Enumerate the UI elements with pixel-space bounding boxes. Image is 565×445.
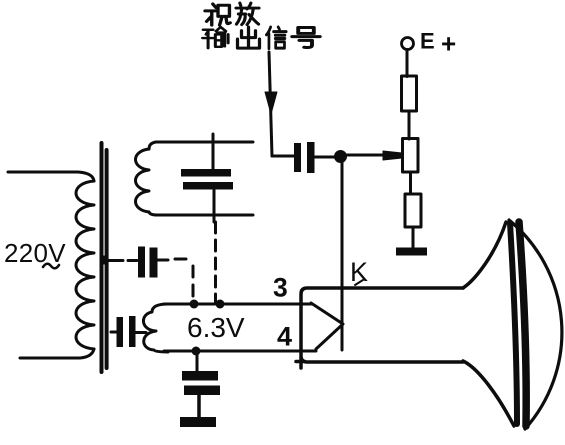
dashed wire from C1 to heater lead <box>214 222 217 303</box>
label 220V~ <box>4 238 66 268</box>
wire C4 to node <box>314 156 336 159</box>
heater filament inside neck <box>311 303 343 349</box>
wire C3 to ground <box>197 395 201 418</box>
CRT bell top flare <box>463 222 506 288</box>
wire R2 to R3 <box>409 172 412 194</box>
wire R1 to R2 <box>408 111 411 139</box>
capacitor C1 plates <box>181 169 233 190</box>
secondary winding L2 bottom lead <box>149 212 253 215</box>
label E+ <box>420 29 456 59</box>
capacitor C3 (heater bypass) stub <box>196 351 199 371</box>
svg-text:3: 3 <box>273 273 288 303</box>
label K <box>350 257 368 287</box>
label 4 <box>277 322 292 352</box>
resistor R2 <box>403 139 419 173</box>
transformer T primary top lead <box>8 172 94 181</box>
svg-text:+: + <box>441 29 456 59</box>
resistor R1 <box>402 76 417 111</box>
secondary winding L2 top lead <box>149 142 253 149</box>
CRT screen inner double line <box>510 222 526 426</box>
heater bottom lead (pin 4 wire) <box>164 350 316 353</box>
CRT neck outline <box>296 288 463 368</box>
capacitor C1 bottom stub <box>213 189 216 222</box>
svg-text:E: E <box>420 29 435 54</box>
cathode wire K <box>341 160 344 350</box>
signal input arrow (down into coupling cap wire) <box>265 52 294 156</box>
secondary winding L2 <box>136 149 150 212</box>
transformer T primary winding <box>76 181 94 349</box>
terminal E+ <box>402 38 414 50</box>
transformer T primary bottom lead <box>20 349 94 358</box>
coupling capacitor C4 plates <box>294 142 315 173</box>
wire C2 right lead <box>157 259 168 262</box>
resistor R3 <box>405 194 421 227</box>
transformer core <box>102 143 107 372</box>
arrow into R2 <box>383 151 402 160</box>
capacitor C5 (core to heater winding) <box>111 316 146 347</box>
heater top lead (pin 3 wire) <box>164 303 311 306</box>
CRT screen outer arc <box>509 220 562 429</box>
capacitor C3 plates <box>182 371 220 395</box>
ground bar (divider) <box>396 248 427 256</box>
dashed wire C2 to heater lead <box>175 259 193 303</box>
svg-text:4: 4 <box>277 322 292 352</box>
CRT bell bottom flare <box>463 361 514 426</box>
label 视放输出信号 (video output signal), hand-drawn glyph strokes <box>205 4 230 25</box>
svg-text:6.3V: 6.3V <box>187 312 245 343</box>
capacitor C1 across L2, top stub <box>212 134 215 169</box>
node junction dot <box>334 150 347 163</box>
capacitor C2 plates <box>138 247 158 278</box>
wire R3 to ground <box>412 227 415 251</box>
label 3 <box>273 273 288 303</box>
junction on core <box>100 256 109 265</box>
heater winding L3 (6.3V) <box>143 304 168 352</box>
ground bar (heater) <box>180 417 216 427</box>
wire core to C2 <box>106 259 137 262</box>
wire E+ to R1 <box>406 50 409 77</box>
label 6.3V <box>187 312 245 343</box>
svg-text:220V: 220V <box>4 238 66 268</box>
wire node to R2 arrow <box>347 154 387 157</box>
junction dots on heater leads <box>190 300 225 356</box>
